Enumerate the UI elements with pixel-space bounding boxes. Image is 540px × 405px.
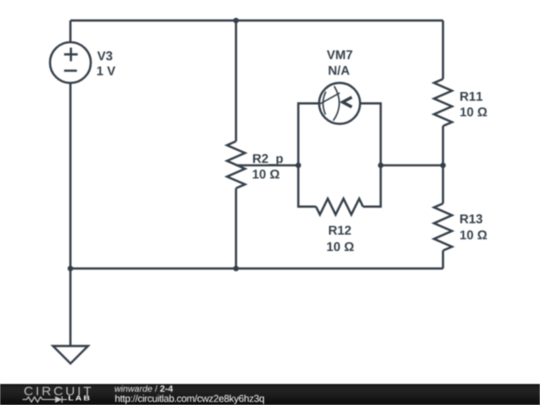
value N/A xyxy=(329,66,350,76)
label R12 xyxy=(329,226,351,235)
resistor R11 xyxy=(434,79,452,126)
junction node left xyxy=(296,163,302,169)
label R11 xyxy=(460,92,482,101)
wire V3 bottom to bottom rail xyxy=(69,83,71,269)
resistor R13 xyxy=(434,204,452,251)
wire bottom rail xyxy=(70,267,443,269)
junction bottom R2 xyxy=(233,266,239,272)
value 1 V xyxy=(97,67,115,76)
logo LAB text xyxy=(69,396,90,401)
wire voltmeter right branch xyxy=(360,103,381,165)
value R11 10 ohm xyxy=(460,107,487,116)
footer url xyxy=(115,395,264,404)
logo resistor zigzag and diode xyxy=(23,396,68,402)
label V3 xyxy=(97,51,112,60)
resistor R2_p xyxy=(227,141,245,188)
resistor R12 xyxy=(316,199,363,215)
label VM7 xyxy=(327,50,353,59)
value R2 10 ohm xyxy=(253,170,279,179)
wire top rail xyxy=(70,19,443,21)
wire voltmeter left branch xyxy=(298,103,319,165)
wire R12 right branch xyxy=(363,165,381,206)
junction top R2 xyxy=(233,18,239,24)
wire R12 left branch xyxy=(298,165,316,206)
junction right rail xyxy=(440,163,446,169)
wire R13 bottom lead xyxy=(442,251,444,269)
wire R2 bottom lead xyxy=(235,188,237,268)
junction bottom left xyxy=(68,266,74,272)
value R13 10 ohm xyxy=(460,230,487,239)
wire ground stem xyxy=(69,269,71,347)
footer bar xyxy=(0,384,540,405)
label R2_p xyxy=(253,154,283,166)
footer title winwarde / 2-4 xyxy=(115,385,173,392)
wire R2 top lead xyxy=(235,21,237,142)
junction node right xyxy=(378,163,384,169)
wire right rail top xyxy=(442,21,444,80)
wire R2 tap to node xyxy=(236,164,298,166)
wire R11 to R13 xyxy=(442,126,444,204)
voltage source V3 xyxy=(50,42,91,83)
wire V3 top lead xyxy=(69,21,71,43)
value R12 10 ohm xyxy=(327,242,354,251)
ground xyxy=(53,346,88,364)
voltmeter VM7 xyxy=(319,83,360,124)
wire node to right rail xyxy=(381,164,443,166)
logo CIRCUIT text xyxy=(24,387,91,396)
label R13 xyxy=(460,214,482,223)
